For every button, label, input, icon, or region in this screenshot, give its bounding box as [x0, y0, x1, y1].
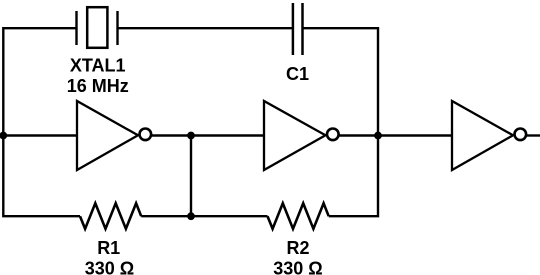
- svg-text:XTAL1: XTAL1: [70, 56, 126, 76]
- svg-text:330 Ω: 330 Ω: [273, 259, 322, 275]
- svg-text:R1: R1: [97, 238, 120, 258]
- svg-text:16 MHz: 16 MHz: [67, 76, 129, 96]
- svg-text:R2: R2: [286, 238, 309, 258]
- svg-text:C1: C1: [286, 64, 309, 84]
- svg-text:330 Ω: 330 Ω: [85, 259, 134, 275]
